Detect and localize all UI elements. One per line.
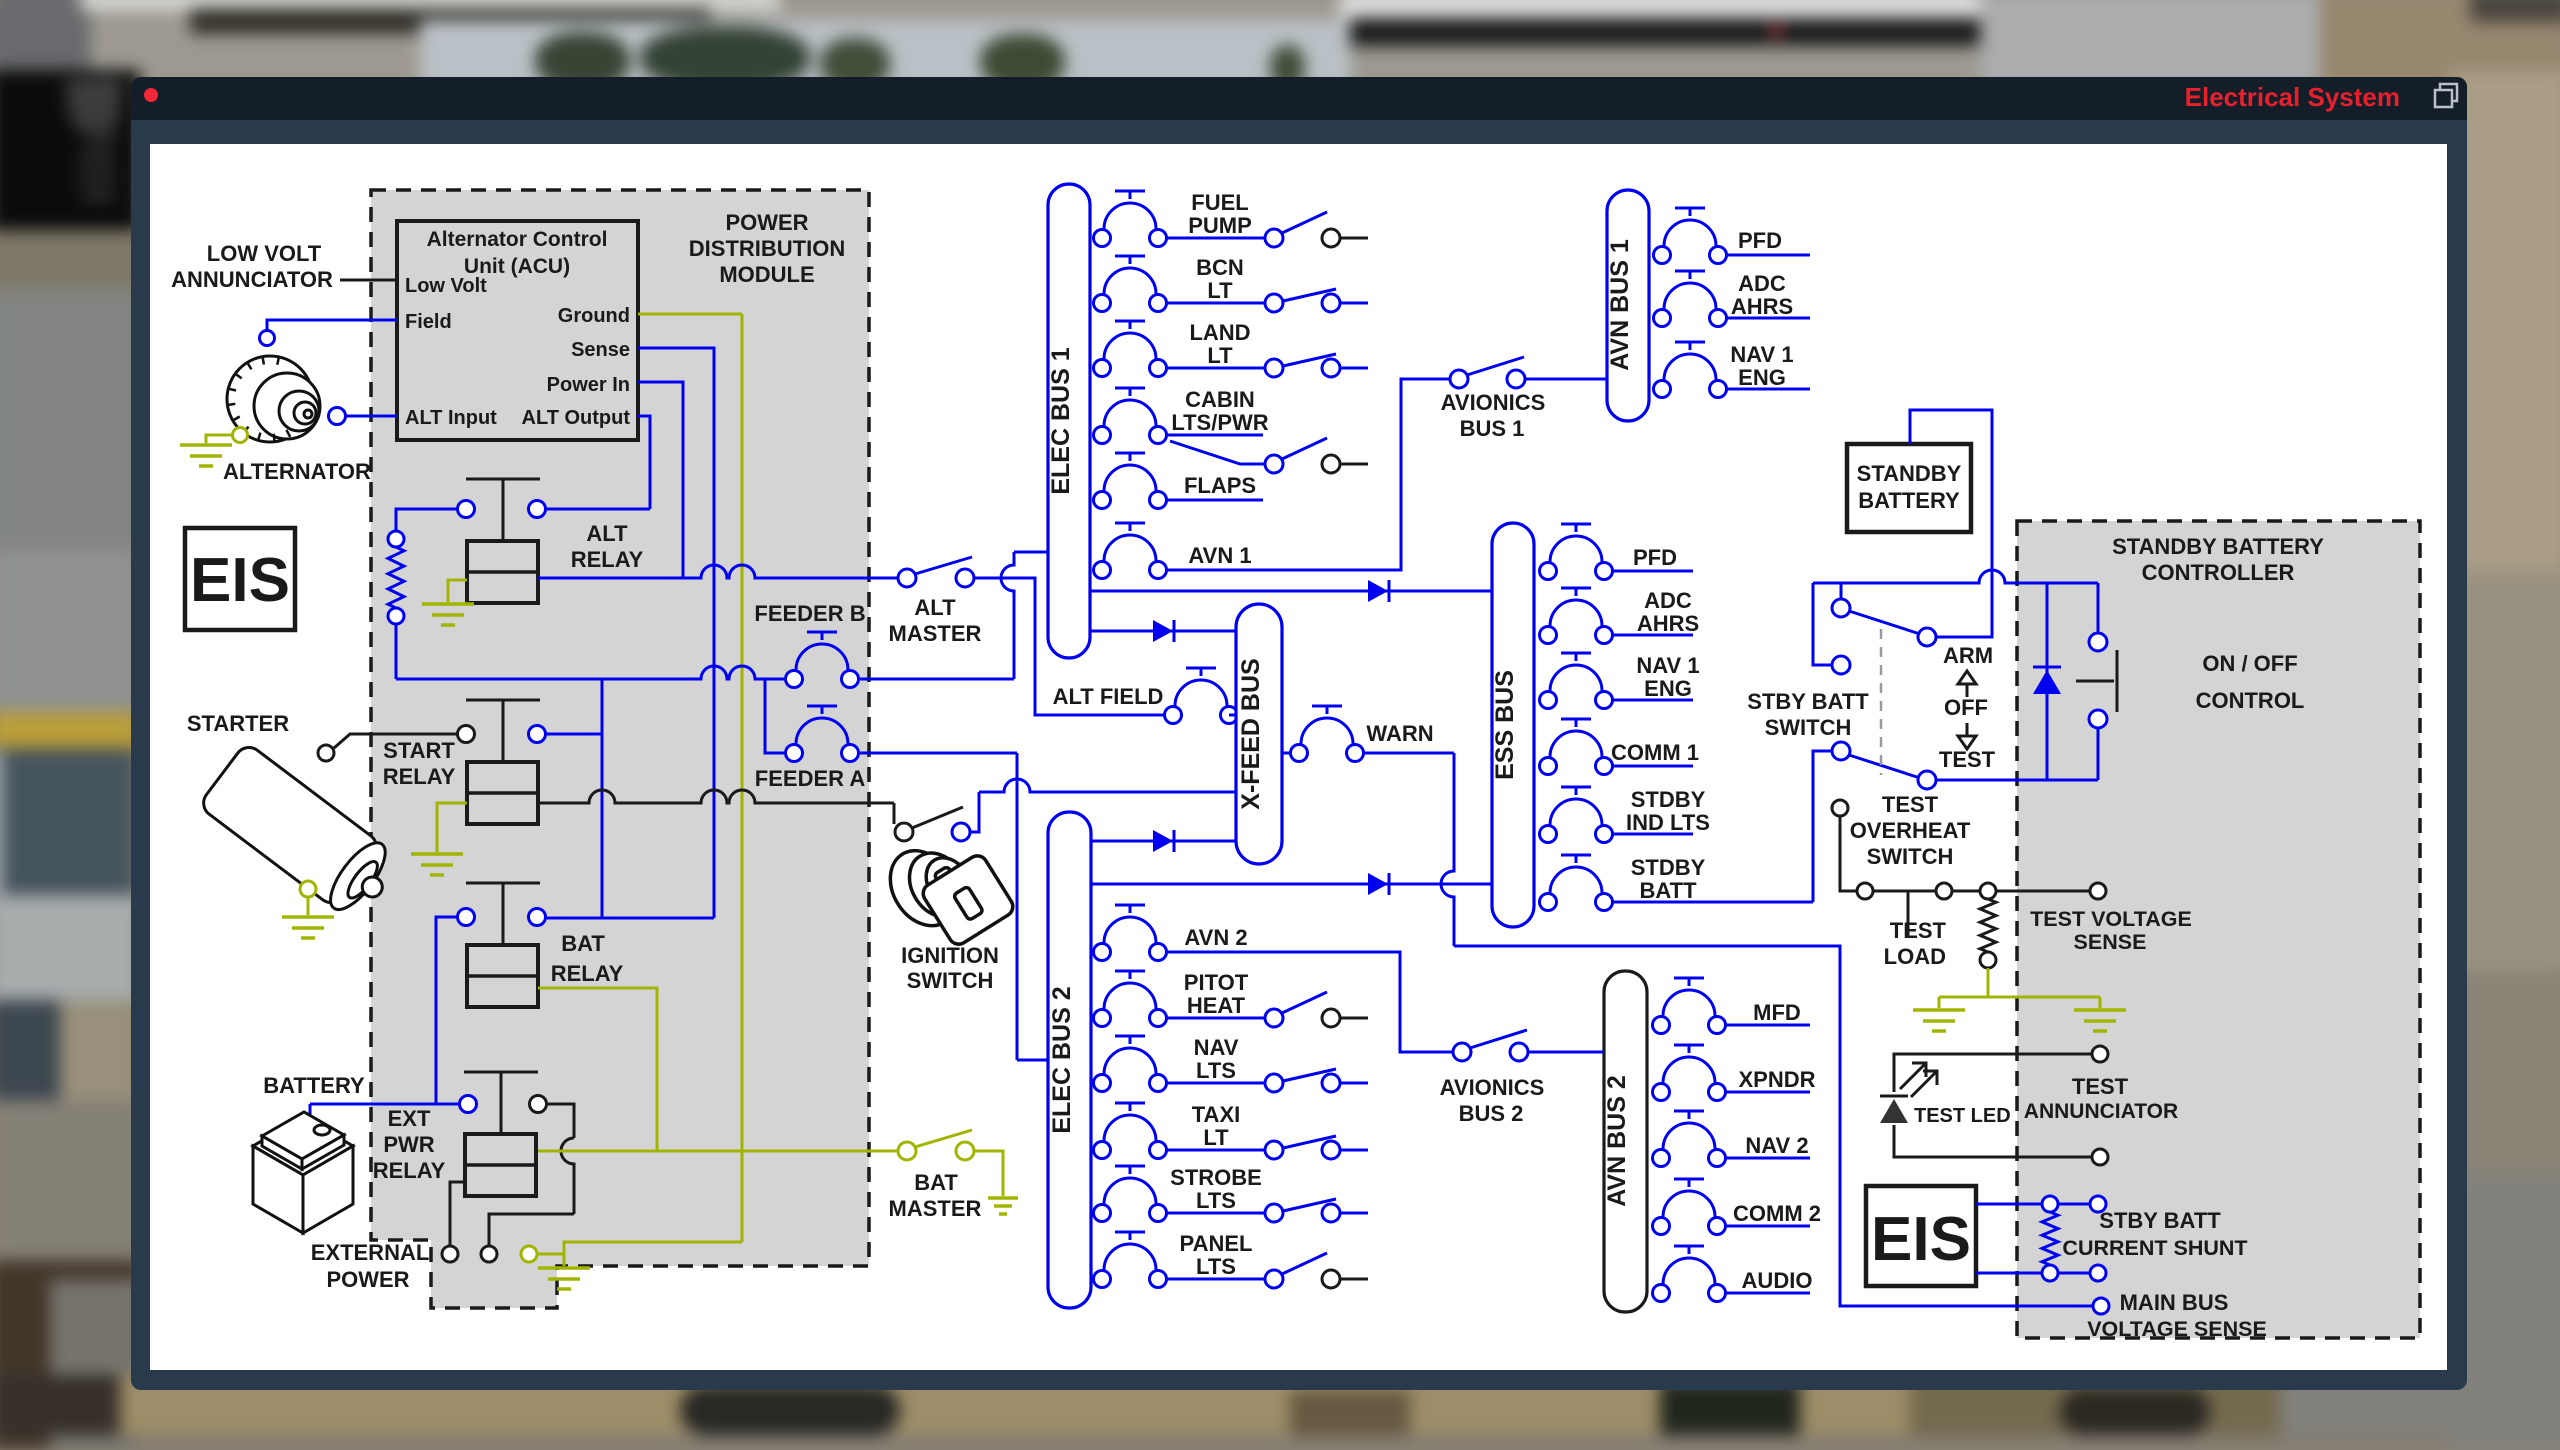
svg-text:EIS: EIS — [1871, 1205, 1971, 1274]
resistor STBY BATT CURRENT SHUNT — [2042, 1212, 2058, 1265]
schematic canvas — [150, 144, 2447, 1370]
node external power terminal 3 ground — [521, 1246, 537, 1262]
svg-text:PITOT: PITOT — [1184, 970, 1249, 995]
svg-text:OVERHEAT: OVERHEAT — [1850, 818, 1971, 843]
svg-text:ANNUNCIATOR: ANNUNCIATOR — [171, 267, 333, 292]
ground starter — [300, 881, 316, 897]
svg-text:BUS 2: BUS 2 — [1459, 1101, 1524, 1126]
node ignition run contact — [952, 823, 970, 841]
module STANDBY BATTERY CONTROLLER (dashed box) — [2017, 521, 2420, 1338]
window close dot — [144, 88, 158, 102]
svg-text:IND LTS: IND LTS — [1626, 810, 1710, 835]
node TEST VOLTAGE SENSE — [2090, 883, 2106, 899]
svg-text:TEST VOLTAGE: TEST VOLTAGE — [2030, 907, 2192, 931]
wire EIS to shunt bottom — [1976, 1272, 2042, 1275]
svg-text:FEEDER B: FEEDER B — [754, 601, 865, 626]
node resistor bottom terminal — [388, 608, 404, 624]
switch STBY BATT SWITCH upper pole ARM — [1840, 583, 1843, 599]
svg-text:MASTER: MASTER — [889, 621, 982, 646]
svg-text:TEST: TEST — [1890, 918, 1947, 943]
block EIS (right) — [1866, 1186, 1976, 1286]
svg-text:LOAD: LOAD — [1884, 944, 1946, 969]
bus X-FEED BUS — [1236, 604, 1282, 864]
wire breaker to switch — [1166, 1017, 1265, 1020]
wire EIS to shunt top — [1976, 1203, 2042, 1206]
svg-text:Sense: Sense — [571, 339, 630, 361]
diode D3 — [1153, 830, 1173, 852]
svg-text:LTS: LTS — [1196, 1254, 1236, 1279]
wire FEEDER B output to ELEC BUS 1 — [860, 678, 1014, 681]
svg-text:Alternator Control: Alternator Control — [427, 228, 608, 251]
breaker ALT FIELD — [1165, 707, 1182, 724]
node EXT PWR relay contact left — [460, 1096, 477, 1113]
wire FLAPS stub — [1166, 499, 1263, 502]
switch BCN LT — [1265, 294, 1283, 312]
wire load stub — [1725, 1292, 1810, 1295]
wire breaker to switch — [1166, 367, 1265, 370]
block STANDBY BATTERY — [1847, 444, 1971, 532]
switch BAT MASTER (olive) — [898, 1142, 916, 1160]
breaker AVN1 NAV 1 ENG — [1654, 381, 1671, 398]
node external power terminal 1 — [442, 1246, 458, 1262]
switch PITOT HEAT — [1265, 1009, 1283, 1027]
svg-text:COMM 1: COMM 1 — [1611, 740, 1699, 765]
svg-text:RELAY: RELAY — [383, 764, 456, 789]
switch STBY BATT SWITCH lower pole TEST — [1832, 742, 1850, 760]
svg-text:RELAY: RELAY — [373, 1158, 446, 1183]
ground test load right — [2074, 1008, 2126, 1012]
wire stby top distribution — [1813, 570, 2098, 583]
svg-text:VOLTAGE SENSE: VOLTAGE SENSE — [2087, 1317, 2267, 1341]
wire AVIONICS BUS 2 switch to AVN BUS 2 — [1528, 1051, 1604, 1054]
wire low-volt annunciator to ACU — [340, 279, 397, 282]
wire load stub — [1726, 317, 1810, 320]
svg-text:EIS: EIS — [190, 546, 290, 615]
svg-text:ESS BUS: ESS BUS — [1491, 670, 1519, 780]
node test annunciator bottom — [2092, 1149, 2108, 1165]
wire battery to EXT PWR relay contact — [310, 1103, 459, 1106]
wire EXT PWR relay coil to terminal 1 — [450, 1182, 465, 1246]
wire ACU Sense down to BAT relay contact line — [638, 348, 714, 918]
svg-text:MAIN BUS: MAIN BUS — [2120, 1290, 2229, 1315]
wire load stub — [1612, 699, 1693, 702]
breaker TAXI LT — [1094, 1142, 1111, 1159]
breaker STROBE LTS — [1094, 1205, 1111, 1222]
block U1 Alternator Control Unit (ACU) — [397, 221, 638, 440]
svg-text:DISTRIBUTION: DISTRIBUTION — [689, 236, 845, 261]
wire load stub — [1612, 765, 1693, 768]
svg-text:ALTERNATOR: ALTERNATOR — [223, 459, 371, 484]
wire breaker to switch — [1166, 302, 1265, 305]
breaker AVN2 AUDIO — [1653, 1285, 1670, 1302]
resistor ALT field coil — [388, 547, 404, 608]
svg-text:PFD: PFD — [1738, 228, 1782, 253]
svg-text:MFD: MFD — [1753, 1000, 1801, 1025]
switch AVIONICS BUS 2 — [1453, 1043, 1471, 1061]
wire ALT relay right contact to ALT Output — [545, 508, 650, 511]
node external power terminal 2 — [481, 1246, 497, 1262]
breaker NAV LTS — [1094, 1075, 1111, 1092]
wire feeder source line — [396, 666, 784, 679]
wire STDBY BATT breaker to STBY BATT SWITCH — [1612, 901, 1813, 904]
block EIS (engine indication system, left) — [185, 528, 295, 630]
switch TEST OVERHEAT SWITCH — [1832, 800, 1848, 816]
svg-text:NAV 1: NAV 1 — [1730, 342, 1793, 367]
ground ALT relay coil — [448, 580, 467, 602]
node test annunciator top — [2092, 1046, 2108, 1062]
svg-text:EXT: EXT — [388, 1106, 431, 1131]
node alternator field terminal — [260, 331, 275, 346]
wire EXT PWR contact to external power terminal 2 — [546, 1104, 574, 1138]
svg-text:ALT: ALT — [914, 595, 956, 620]
svg-text:BAT: BAT — [914, 1170, 958, 1195]
wire load stub — [1725, 1024, 1810, 1027]
wire load stub — [1725, 1225, 1810, 1228]
svg-text:Low Volt: Low Volt — [405, 275, 487, 297]
svg-text:LTS: LTS — [1196, 1058, 1236, 1083]
node EXT PWR relay contact right — [530, 1096, 547, 1113]
wire load stub — [1612, 570, 1693, 573]
svg-text:AVN BUS 2: AVN BUS 2 — [1603, 1075, 1631, 1207]
wire load stub — [1612, 634, 1693, 637]
wire ELEC BUS 1 to ESS BUS — [1090, 590, 1492, 593]
node shunt top right — [2090, 1196, 2106, 1212]
node starter terminal — [318, 745, 334, 761]
svg-text:FEEDER A: FEEDER A — [755, 766, 866, 791]
svg-text:STBY BATT: STBY BATT — [1747, 689, 1869, 714]
svg-text:BATT: BATT — [1639, 878, 1697, 903]
breaker AVN1 ADC AHRS — [1654, 310, 1671, 327]
breaker WARN — [1282, 752, 1290, 755]
wire ignition to X-FEED BUS — [970, 792, 979, 832]
wire feeder to BAT relay vertical — [601, 679, 604, 918]
switch ALT MASTER — [898, 569, 916, 587]
svg-text:AVN BUS 1: AVN BUS 1 — [1606, 239, 1634, 371]
node shunt top left — [2042, 1196, 2058, 1212]
wire CABIN LTS/PWR stub — [1166, 434, 1263, 437]
svg-text:STDBY: STDBY — [1631, 787, 1706, 812]
svg-text:CONTROL: CONTROL — [2196, 688, 2305, 713]
bus ELEC BUS 1 — [1048, 184, 1090, 658]
switch FUEL PUMP — [1265, 229, 1283, 247]
svg-text:TEST: TEST — [2072, 1074, 2129, 1099]
node BAT relay contact right — [529, 909, 546, 926]
battery icon — [253, 1112, 353, 1233]
breaker BCN LT — [1094, 295, 1111, 312]
svg-text:CURRENT SHUNT: CURRENT SHUNT — [2062, 1236, 2247, 1260]
wire breaker to switch — [1166, 237, 1265, 240]
svg-text:CONTROLLER: CONTROLLER — [2142, 560, 2295, 585]
breaker ESS NAV 1 ENG — [1540, 692, 1557, 709]
switch NAV LTS — [1265, 1074, 1283, 1092]
svg-text:STARTER: STARTER — [187, 711, 289, 736]
breaker ESS ADC AHRS — [1540, 627, 1557, 644]
svg-text:ENG: ENG — [1644, 676, 1692, 701]
svg-text:X-FEED BUS: X-FEED BUS — [1237, 658, 1265, 809]
wire START relay output to ignition switch (black) — [538, 790, 894, 803]
svg-text:XPNDR: XPNDR — [1738, 1067, 1815, 1092]
svg-text:TEST LED: TEST LED — [1914, 1105, 2011, 1127]
switch STROBE LTS — [1265, 1204, 1283, 1222]
svg-text:OFF: OFF — [1944, 695, 1988, 720]
wire resistor to feeder line — [395, 624, 398, 679]
svg-text:BCN: BCN — [1196, 255, 1244, 280]
bus ELEC BUS 2 — [1048, 812, 1091, 1308]
breaker PITOT HEAT — [1094, 1010, 1111, 1027]
svg-text:AHRS: AHRS — [1637, 611, 1699, 636]
svg-text:START: START — [383, 738, 455, 763]
wire terminal 3 to ground net — [537, 1242, 742, 1254]
svg-text:LTS/PWR: LTS/PWR — [1171, 410, 1268, 435]
svg-text:ENG: ENG — [1738, 365, 1786, 390]
wire breaker to switch — [1166, 1149, 1265, 1152]
svg-text:HEAT: HEAT — [1187, 993, 1246, 1018]
wire EXT PWR relay to BAT MASTER (olive) — [538, 1150, 899, 1153]
node OFF contact — [1813, 583, 1832, 665]
wire ELEC BUS 2 to ESS BUS — [1091, 883, 1492, 886]
svg-text:PFD: PFD — [1633, 545, 1677, 570]
wire CABIN LTS/PWR to switch — [1170, 441, 1266, 464]
svg-text:ALT FIELD: ALT FIELD — [1053, 684, 1164, 709]
diode D4 — [1368, 873, 1388, 895]
wire breaker to switch — [1166, 1212, 1265, 1215]
ground external power — [563, 1254, 566, 1266]
svg-text:ALT Input: ALT Input — [405, 407, 497, 429]
wire ELEC BUS 1 to X-FEED BUS — [1090, 630, 1236, 633]
svg-text:BUS 1: BUS 1 — [1460, 416, 1525, 441]
svg-text:SWITCH: SWITCH — [1867, 844, 1954, 869]
starter motor icon — [198, 742, 404, 925]
svg-text:MODULE: MODULE — [719, 262, 814, 287]
breaker ESS STDBY IND LTS — [1540, 826, 1557, 843]
svg-text:FLAPS: FLAPS — [1184, 473, 1256, 498]
wire WARN output down to main-bus sense line — [1364, 752, 1454, 755]
wire ALT MASTER to ALT FIELD breaker — [974, 578, 1164, 715]
relay START RELAY — [467, 762, 538, 824]
switch ON OFF CONTROL — [2097, 583, 2100, 633]
svg-text:NAV 2: NAV 2 — [1745, 1133, 1808, 1158]
svg-text:POWER: POWER — [326, 1267, 409, 1292]
relay BAT RELAY — [467, 945, 538, 1007]
wire load stub — [1726, 254, 1810, 257]
wire ACU Field to alternator field terminal — [267, 320, 397, 330]
switch IGNITION SWITCH contact — [895, 823, 913, 841]
node alternator output terminal — [329, 408, 346, 425]
svg-text:WARN: WARN — [1366, 721, 1433, 746]
svg-text:PUMP: PUMP — [1188, 213, 1252, 238]
wire load stub — [1726, 388, 1810, 391]
svg-text:AUDIO: AUDIO — [1742, 1268, 1813, 1293]
wire load stub — [1612, 833, 1693, 836]
svg-text:ON / OFF: ON / OFF — [2202, 651, 2297, 676]
svg-text:Ground: Ground — [558, 305, 630, 327]
wire BAT relay left contact to battery line — [436, 917, 457, 1104]
svg-text:ELEC BUS 1: ELEC BUS 1 — [1047, 347, 1075, 494]
svg-text:STROBE: STROBE — [1170, 1165, 1262, 1190]
wire ELEC BUS 2 to X-FEED BUS — [1091, 840, 1236, 843]
svg-text:ADC: ADC — [1738, 271, 1786, 296]
breaker FEEDER A — [786, 745, 803, 762]
wire load stub — [1725, 1157, 1810, 1160]
breaker AVN2 COMM 2 — [1653, 1218, 1670, 1235]
wire AVN 1 to AVIONICS BUS 1 switch — [1166, 379, 1450, 570]
svg-text:Power In: Power In — [547, 374, 630, 396]
wire ACU ALT Output down to ALT relay contact — [638, 416, 650, 509]
node MAIN BUS VOLTAGE SENSE — [2093, 1298, 2109, 1314]
svg-text:LT: LT — [1207, 278, 1233, 303]
svg-text:STANDBY: STANDBY — [1857, 461, 1962, 486]
svg-text:SWITCH: SWITCH — [1765, 715, 1852, 740]
wire ALT FIELD to X-FEED BUS — [1229, 714, 1236, 717]
switch CABIN LTS/PWR (open) — [1265, 455, 1283, 473]
switch AVIONICS BUS 1 — [1450, 370, 1468, 388]
node resistor top terminal — [388, 531, 404, 547]
node shunt bottom right — [2090, 1265, 2106, 1281]
svg-text:LOW VOLT: LOW VOLT — [207, 241, 322, 266]
svg-text:BATTERY: BATTERY — [263, 1073, 365, 1098]
breaker AVN 1 — [1094, 562, 1111, 579]
ignition key icon — [877, 831, 1017, 948]
svg-text:AVN 2: AVN 2 — [1184, 925, 1247, 950]
wire BAT relay right contact to sense line — [546, 917, 714, 920]
svg-text:RELAY: RELAY — [571, 547, 644, 572]
breaker FUEL PUMP — [1094, 230, 1111, 247]
svg-text:MASTER: MASTER — [889, 1196, 982, 1221]
svg-text:STANDBY BATTERY: STANDBY BATTERY — [2112, 534, 2324, 559]
svg-text:LTS: LTS — [1196, 1188, 1236, 1213]
svg-text:AVN 1: AVN 1 — [1188, 543, 1251, 568]
svg-text:BAT: BAT — [561, 931, 605, 956]
wire ACU Ground down (olive) — [638, 313, 742, 316]
svg-text:SENSE: SENSE — [2074, 930, 2147, 954]
svg-text:POWER: POWER — [725, 210, 808, 235]
diode standby controller — [2046, 583, 2049, 780]
svg-text:PANEL: PANEL — [1180, 1231, 1253, 1256]
wire breaker to switch — [1166, 1082, 1265, 1085]
bus AVN BUS 2 — [1604, 971, 1647, 1312]
svg-text:TEST: TEST — [1882, 792, 1939, 817]
svg-text:ADC: ADC — [1644, 588, 1692, 613]
wire START relay left contact to starter — [334, 734, 457, 748]
breaker FEEDER B — [786, 671, 803, 688]
bus AVN BUS 1 — [1607, 190, 1649, 421]
svg-text:ALT: ALT — [586, 521, 628, 546]
svg-text:LAND: LAND — [1189, 320, 1250, 345]
breaker ESS STDBY BATT — [1540, 894, 1557, 911]
wire load stub — [1725, 1091, 1810, 1094]
svg-text:STBY BATT: STBY BATT — [2099, 1208, 2221, 1233]
wire ACU Power In down to ALT MASTER feed line — [638, 382, 683, 578]
breaker ESS COMM 1 — [1540, 758, 1557, 775]
wire STANDBY BATTERY to ARM contact — [1910, 410, 1992, 637]
LED TEST LED — [1880, 1095, 1908, 1098]
svg-text:ELEC BUS 2: ELEC BUS 2 — [1048, 986, 1076, 1133]
diode D1 — [1153, 620, 1173, 642]
wire FEEDER A output to ELEC BUS 2 — [860, 752, 1017, 755]
svg-text:AHRS: AHRS — [1731, 294, 1793, 319]
wire annunciator loop — [1894, 1054, 2092, 1092]
svg-text:EXTERNAL: EXTERNAL — [311, 1240, 430, 1265]
switch LAND LT — [1265, 359, 1283, 377]
wire AVN 2 to AVIONICS BUS 2 switch — [1166, 952, 1453, 1052]
svg-text:AVIONICS: AVIONICS — [1441, 390, 1546, 415]
wire AVIONICS BUS 1 switch to AVN BUS 1 — [1525, 378, 1607, 381]
window title — [2170, 82, 2400, 113]
breaker AVN1 PFD — [1654, 247, 1671, 264]
wire breaker to switch — [1166, 1278, 1265, 1281]
ground test load left — [1913, 1008, 1965, 1012]
svg-text:BATTERY: BATTERY — [1858, 488, 1960, 513]
svg-text:LT: LT — [1207, 343, 1233, 368]
wire START relay right contact to bus feed vertical — [546, 733, 602, 736]
wire BAT MASTER to ground — [974, 1151, 1003, 1196]
svg-text:NAV 1: NAV 1 — [1636, 653, 1699, 678]
svg-text:LT: LT — [1203, 1125, 1229, 1150]
svg-text:ARM: ARM — [1943, 643, 1993, 668]
node START relay contact right — [529, 726, 546, 743]
svg-text:TAXI: TAXI — [1192, 1102, 1240, 1127]
svg-text:RELAY: RELAY — [551, 961, 624, 986]
alternator icon — [227, 356, 320, 442]
breaker AVN2 NAV 2 — [1653, 1150, 1670, 1167]
node shunt bottom left — [2042, 1265, 2058, 1281]
ground START relay coil — [437, 803, 467, 852]
svg-text:CABIN: CABIN — [1185, 387, 1255, 412]
wire ALT relay left contact to coil resistor — [396, 509, 458, 531]
svg-text:SWITCH: SWITCH — [907, 968, 994, 993]
node START relay contact left — [458, 726, 475, 743]
breaker LAND LT — [1094, 360, 1111, 377]
svg-text:STDBY: STDBY — [1631, 855, 1706, 880]
wire BAT relay coil to bat-master net (olive) — [538, 988, 657, 1151]
wire ACU ALT Input to alternator — [346, 415, 397, 418]
diode D2 — [1368, 580, 1388, 602]
node BAT relay contact left — [458, 909, 475, 926]
relay ALT RELAY — [467, 541, 538, 603]
svg-text:COMM 2: COMM 2 — [1733, 1201, 1821, 1226]
ground alternator — [233, 428, 248, 443]
resistor TEST LOAD — [1980, 899, 1996, 952]
module POWER DISTRIBUTION MODULE (dashed box) — [371, 190, 869, 1308]
wire test load to ground olive — [1987, 968, 1990, 997]
svg-text:PWR: PWR — [383, 1132, 434, 1157]
bus ESS BUS — [1492, 523, 1534, 927]
breaker PANEL LTS — [1094, 1271, 1111, 1288]
svg-text:ALT Output: ALT Output — [522, 407, 631, 429]
breaker AVN 2 — [1094, 944, 1111, 961]
svg-text:NAV: NAV — [1194, 1035, 1239, 1060]
wire TEST pole to controller — [1936, 779, 2098, 782]
svg-text:IGNITION: IGNITION — [901, 943, 999, 968]
wire ALT relay output to ALT MASTER switch — [538, 565, 899, 578]
breaker FLAPS — [1094, 492, 1111, 509]
node ALT relay contact right — [529, 501, 546, 518]
svg-text:ANNUNCIATOR: ANNUNCIATOR — [2024, 1100, 2178, 1123]
switch PANEL LTS — [1265, 1270, 1283, 1288]
node ALT relay contact left — [458, 501, 475, 518]
wire FEEDER A tap — [765, 679, 784, 753]
switch TAXI LT — [1265, 1141, 1283, 1159]
svg-text:AVIONICS: AVIONICS — [1440, 1075, 1545, 1100]
breaker CABIN LTS/PWR — [1094, 427, 1111, 444]
mechanical link dashed — [1880, 629, 1883, 775]
breaker ESS PFD — [1540, 563, 1557, 580]
relay EXT PWR RELAY — [465, 1134, 536, 1196]
breaker AVN2 MFD — [1653, 1017, 1670, 1034]
svg-text:FUEL: FUEL — [1191, 190, 1248, 215]
svg-text:Field: Field — [405, 311, 452, 333]
breaker AVN2 XPNDR — [1653, 1084, 1670, 1101]
